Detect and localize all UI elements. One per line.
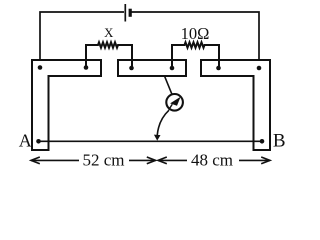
terminal dot right strip 1	[216, 66, 221, 71]
metal strip right (L-shaped, end B)	[201, 60, 270, 150]
wire: middle strip to galvanometer	[165, 76, 172, 94]
svg-text:A: A	[19, 130, 32, 150]
terminal dot right strip 2	[257, 66, 262, 71]
svg-text:10Ω: 10Ω	[181, 24, 210, 43]
dimension line 48 cm right part with right arrowhead	[239, 157, 270, 164]
bridge wire A to B	[39, 140, 263, 142]
battery B1 long plate	[124, 4, 126, 22]
svg-text:B: B	[273, 131, 286, 152]
resistor X (bracket with zigzag)	[86, 42, 132, 68]
svg-text:48 cm: 48 cm	[191, 151, 233, 170]
svg-text:X: X	[104, 26, 114, 40]
terminal dot middle strip 1	[129, 66, 134, 71]
metal strip left (L-shaped, end A)	[32, 60, 101, 150]
terminal dot B	[260, 139, 265, 144]
wire: battery loop left (top wire to left strip terminal)	[40, 12, 124, 68]
galvanometer needle	[169, 104, 173, 110]
terminal dot left strip 2	[84, 65, 89, 70]
terminal dot A	[36, 139, 41, 144]
battery B1 short plate	[129, 9, 132, 17]
terminal dot middle strip 2	[170, 66, 175, 71]
metal strip middle	[118, 60, 186, 76]
galvanometer G circle	[166, 94, 183, 111]
jockey wire (curved) from galvanometer to bridge wire	[157, 110, 169, 135]
svg-text:52 cm: 52 cm	[82, 151, 124, 170]
dimension arrow left (52 cm segment, left arrowhead)	[31, 157, 79, 164]
resistor R1 10ohm (bracket with zigzag)	[172, 42, 219, 68]
jockey arrowhead	[154, 135, 161, 141]
wire: battery loop right (top wire to right strip terminal)	[131, 12, 260, 68]
terminal dot left strip 1	[38, 65, 43, 70]
dimension line 52 cm right part with right arrowhead	[129, 157, 156, 164]
dimension arrow (48 cm segment, left arrowhead)	[158, 157, 187, 164]
